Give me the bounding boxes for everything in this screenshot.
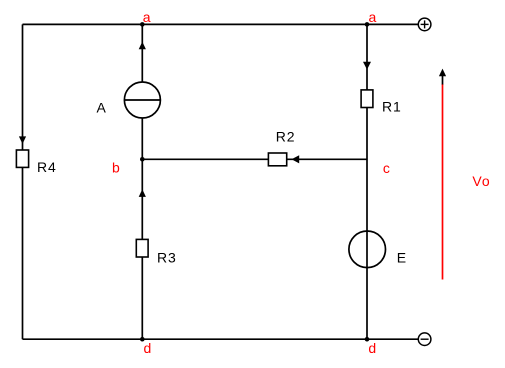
svg-text:Vo: Vo — [472, 173, 490, 189]
svg-text:b: b — [112, 160, 120, 176]
svg-text:R3: R3 — [157, 249, 177, 265]
svg-text:a: a — [369, 9, 377, 25]
svg-text:R2: R2 — [276, 129, 296, 145]
svg-text:c: c — [383, 160, 390, 176]
svg-text:d: d — [144, 340, 152, 356]
svg-text:A: A — [97, 100, 107, 116]
svg-text:E: E — [397, 250, 406, 266]
svg-text:d: d — [368, 340, 376, 356]
svg-text:R4: R4 — [37, 159, 57, 175]
svg-text:a: a — [143, 9, 151, 25]
svg-text:R1: R1 — [382, 99, 402, 115]
